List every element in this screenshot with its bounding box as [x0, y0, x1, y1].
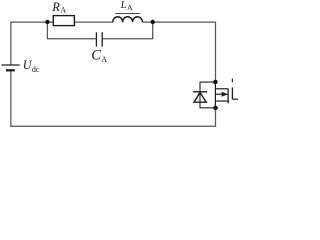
transistor VT gate upper break dash: [231, 79, 233, 82]
capacitor C_A right plate: [101, 32, 103, 46]
svg-text:dc: dc: [32, 65, 40, 74]
label C_A: [91, 48, 107, 64]
transistor VT gate bar: [231, 87, 233, 99]
node B (junction dot): [151, 20, 155, 24]
wire: capacitor branch right (across and up to node B): [103, 22, 153, 39]
svg-text:A: A: [60, 6, 66, 15]
label R_A: [51, 0, 66, 15]
transistor VT body arrow (points right into channel bar): [215, 92, 228, 97]
wire: diode branch bottom (down, right to node D): [200, 102, 216, 108]
svg-text:A: A: [101, 55, 107, 64]
wire: node A to resistor left terminal: [47, 21, 53, 23]
transistor VT drain stub: [215, 88, 228, 90]
inductor L_A (three humps): [113, 17, 143, 22]
transistor VT gate lead going right: [232, 98, 238, 100]
resistor R_A: [53, 16, 74, 26]
battery U_dc long plate: [2, 64, 20, 66]
diode VD cathode bar: [193, 91, 207, 93]
wire: battery bottom to bottom-left corner, bottom wire, right wire up to node D: [11, 70, 216, 126]
label L_A: [120, 0, 133, 12]
transistor VT source stub: [215, 100, 228, 102]
wire: diode branch top (node C left, down): [200, 82, 215, 92]
node A (junction dot): [45, 20, 49, 24]
capacitor C_A left plate: [95, 32, 97, 46]
wire: inductor to node B: [143, 21, 153, 23]
wire: resistor right terminal to inductor: [75, 21, 113, 23]
node D (bottom dot of device cell): [213, 106, 218, 111]
transistor VT channel bar: [227, 89, 229, 104]
transistor VT main vertical lead between nodes: [214, 82, 216, 108]
battery U_dc short thick plate: [6, 69, 15, 71]
inductor bar above humps: [115, 13, 140, 15]
wire: diode center lead through triangle: [199, 92, 201, 102]
svg-text:C: C: [91, 48, 101, 64]
wire: capacitor branch left (node A down and across): [47, 22, 95, 39]
svg-text:R: R: [51, 0, 60, 14]
wire: node B to top-right corner down to node C: [153, 22, 216, 80]
wire: left wire upper + top wire to node A: [11, 22, 48, 65]
svg-text:L: L: [120, 0, 127, 11]
diode VD triangle (pointing up): [194, 92, 206, 102]
svg-text:A: A: [127, 3, 133, 12]
node C (top dot of device cell): [213, 80, 218, 85]
label U_dc: [23, 58, 40, 74]
